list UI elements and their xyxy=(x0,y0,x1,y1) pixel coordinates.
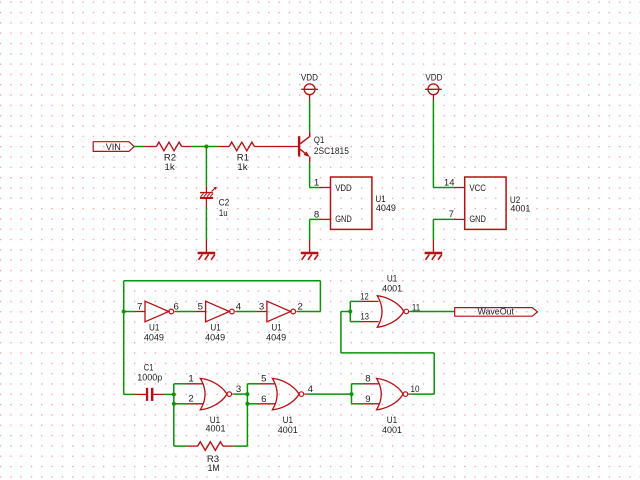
wire left input vertical xyxy=(173,384,175,446)
wire feedback into gate d xyxy=(341,311,350,313)
pin 11 stub xyxy=(409,311,410,313)
pin 6 xyxy=(259,403,275,405)
inverter U1 4049 (a) xyxy=(145,301,169,322)
NOR gate U1 4001 (b) xyxy=(272,378,299,409)
svg-text:1k: 1k xyxy=(237,162,247,173)
pin 7 of U2 xyxy=(454,218,465,220)
svg-text:6: 6 xyxy=(261,394,266,405)
resistor R3 xyxy=(198,442,223,451)
wire down to ground xyxy=(309,219,311,240)
svg-text:1u: 1u xyxy=(219,208,228,219)
svg-text:1M: 1M xyxy=(208,463,220,474)
pin 14 of U2 xyxy=(454,187,465,189)
inverter U1 4049 (b) xyxy=(206,301,230,322)
wire to pin 13 xyxy=(350,321,361,323)
wire R3 right xyxy=(234,445,248,447)
pin 12 xyxy=(361,300,378,302)
pin 8 of U1 xyxy=(319,218,331,220)
wire R2 to R1 xyxy=(191,146,217,148)
wire VIN to R2 xyxy=(134,146,144,148)
junction gate a output xyxy=(245,392,249,396)
input label VIN xyxy=(93,142,134,152)
wire right vertical to R3 xyxy=(246,384,248,446)
capacitor C1 xyxy=(146,388,148,401)
wire gate c input vertical xyxy=(351,384,353,404)
wire to inverter 1 xyxy=(124,311,135,313)
wire junction down to C2 xyxy=(205,147,207,187)
NOR gate U1 4001 (c) xyxy=(377,378,404,409)
NOR gate U1 4001 (a) xyxy=(200,378,227,409)
pin R2 right xyxy=(182,146,192,148)
wire gate b to gate c xyxy=(307,393,352,395)
pin 6 stub xyxy=(175,311,176,313)
svg-text:4049: 4049 xyxy=(266,333,286,344)
pin 9 xyxy=(363,403,379,405)
pin 2 stub xyxy=(297,311,298,313)
pin ground stem xyxy=(205,240,207,252)
wire feedback right down xyxy=(319,281,321,312)
pin 2 xyxy=(187,403,203,405)
svg-text:9: 9 xyxy=(365,394,370,405)
svg-text:4001: 4001 xyxy=(278,425,298,436)
svg-text:5: 5 xyxy=(261,374,266,385)
wire to U1 pin 1 xyxy=(310,187,319,189)
svg-text:C2: C2 xyxy=(219,197,230,208)
svg-text:1k: 1k xyxy=(165,162,175,173)
junction gate a input lower xyxy=(172,402,176,406)
pin 7 of inverter xyxy=(134,311,145,313)
pin 4 stub xyxy=(235,311,237,313)
wire gate c output xyxy=(411,393,434,395)
power symbol VDD (right) xyxy=(428,84,439,95)
wire to R3 left xyxy=(174,445,187,447)
svg-text:7: 7 xyxy=(449,209,454,220)
resistor R1 xyxy=(229,142,254,151)
wire C2 to ground xyxy=(205,207,207,240)
wire feedback vertical right xyxy=(433,353,435,394)
junction gate d inputs xyxy=(348,310,352,314)
output label WaveOut xyxy=(455,308,538,317)
pin R3 right xyxy=(223,445,234,447)
wire feedback top xyxy=(124,280,321,282)
wire to U2 pin 14 xyxy=(433,187,454,189)
pin 3 stub xyxy=(232,393,234,395)
NOR gate U1 4001 (d) xyxy=(377,296,404,327)
wire to C1 xyxy=(124,393,135,395)
resistor R2 xyxy=(156,142,181,151)
wire VDD down to U2 xyxy=(432,101,434,188)
svg-text:Q1: Q1 xyxy=(314,135,324,146)
svg-text:4001: 4001 xyxy=(206,424,226,435)
pin 3 of inverter xyxy=(256,311,267,313)
svg-text:5: 5 xyxy=(198,301,203,312)
wire inverter a to b xyxy=(176,311,195,313)
wire feedback vertical left xyxy=(340,312,342,353)
pin R2 left xyxy=(144,146,156,148)
svg-text:2SC1815: 2SC1815 xyxy=(314,146,349,157)
wire to pin 2 xyxy=(174,403,187,405)
svg-text:4049: 4049 xyxy=(205,333,225,344)
svg-text:7: 7 xyxy=(137,301,142,312)
pin 1 xyxy=(187,383,203,385)
wire to WaveOut xyxy=(410,311,454,313)
junction gate c inputs xyxy=(350,392,354,396)
wire gate d input vertical xyxy=(349,301,351,321)
pin 5 xyxy=(259,383,275,385)
svg-text:GND: GND xyxy=(469,214,486,225)
pin C2 top xyxy=(205,186,207,192)
junction gate a input upper xyxy=(172,392,176,396)
inverter U1 4049 (c) xyxy=(267,301,291,322)
pin 4 stub xyxy=(305,393,307,395)
transistor Q1 2SC1815 xyxy=(298,136,300,156)
wire U2 pin 7 xyxy=(433,218,454,220)
svg-text:4001: 4001 xyxy=(382,425,402,436)
wire U1 pin 8 xyxy=(310,218,319,220)
wire to pin 9 xyxy=(352,403,364,405)
junction inverter input xyxy=(122,310,126,314)
power symbol VDD (left) xyxy=(304,84,315,95)
pin 1 of U1 xyxy=(319,187,331,189)
capacitor C2 (polarized) xyxy=(200,192,213,193)
wire feedback left down xyxy=(123,281,125,312)
junction node base RC xyxy=(204,145,208,149)
wire left vertical to C1 xyxy=(123,312,125,395)
svg-text:12: 12 xyxy=(360,291,368,302)
svg-text:4001: 4001 xyxy=(510,204,530,215)
wire inverter b to c xyxy=(237,311,257,313)
svg-text:4001: 4001 xyxy=(382,284,402,295)
svg-text:8: 8 xyxy=(365,374,370,385)
wire VDD to Q1 collector xyxy=(309,101,311,131)
junction pin 6 tap xyxy=(245,402,249,406)
wire down to ground xyxy=(432,219,434,240)
wire to pin 8 xyxy=(352,383,364,385)
wire to pin 12 xyxy=(350,300,361,302)
ground under C2 xyxy=(198,252,216,254)
wire Q1 emitter down xyxy=(309,163,311,188)
svg-text:14: 14 xyxy=(444,178,455,189)
pin 5 of inverter xyxy=(195,311,205,313)
svg-text:VDD: VDD xyxy=(301,73,318,84)
C2 plus mark xyxy=(212,189,215,192)
ground under U2 xyxy=(425,252,443,254)
pin C1 right xyxy=(153,393,164,395)
ground under U1 xyxy=(301,252,319,254)
wire to pin 6 xyxy=(247,403,259,405)
pin 8 xyxy=(363,383,379,385)
svg-text:VCC: VCC xyxy=(469,183,486,194)
svg-text:WaveOut: WaveOut xyxy=(477,307,514,318)
pin 10 stub xyxy=(409,393,411,395)
pin ground stem xyxy=(309,240,311,252)
pin C1 left xyxy=(134,393,146,395)
svg-text:VIN: VIN xyxy=(106,142,121,153)
wire gate a output xyxy=(234,393,248,395)
pin R3 left xyxy=(187,445,198,447)
svg-text:3: 3 xyxy=(259,301,264,312)
pin R1 right + Q1 base pin xyxy=(254,146,298,148)
svg-text:VDD: VDD xyxy=(335,183,352,194)
pin ground stem xyxy=(432,240,434,252)
wire to pin 5 xyxy=(247,383,259,385)
pin 13 xyxy=(361,321,378,323)
svg-text:GND: GND xyxy=(335,214,352,225)
wire inverter c output xyxy=(298,311,321,313)
svg-text:4049: 4049 xyxy=(376,203,396,214)
pin C2 bottom xyxy=(205,199,207,207)
svg-text:VDD: VDD xyxy=(425,73,442,84)
svg-text:4049: 4049 xyxy=(144,333,164,344)
wire feedback horizontal xyxy=(341,352,434,354)
svg-text:1: 1 xyxy=(188,374,193,385)
IC U2 4001 power unit xyxy=(465,177,506,229)
pin VDD symbol xyxy=(309,95,311,101)
svg-text:1000p: 1000p xyxy=(137,372,162,383)
svg-text:1: 1 xyxy=(314,178,319,189)
wire C1 to gate a inputs xyxy=(164,393,174,395)
IC U1 4049 power unit xyxy=(331,177,372,229)
pin VDD symbol xyxy=(432,95,434,101)
svg-text:13: 13 xyxy=(361,312,369,323)
wire to pin 1 xyxy=(174,383,187,385)
pin R1 left xyxy=(218,146,230,148)
svg-text:2: 2 xyxy=(188,394,193,405)
